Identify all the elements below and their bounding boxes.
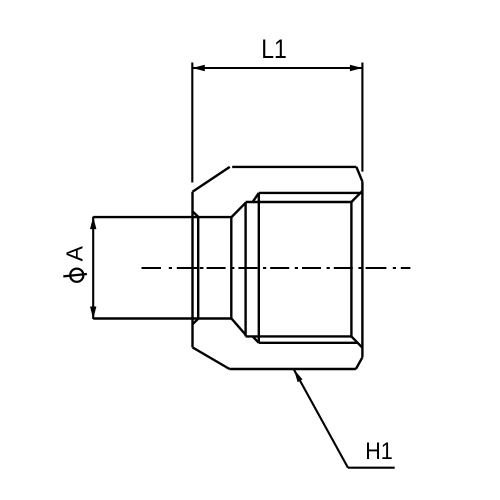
cone taper top	[232, 203, 246, 217]
leader H1 line	[294, 369, 348, 467]
phi symbol circle	[70, 269, 83, 282]
hex body right face	[361, 182, 363, 358]
cylinder top outline	[93, 216, 231, 218]
corner chamfer diagonal top-left	[253, 193, 259, 202]
hex body bottom edge	[230, 368, 356, 370]
cylinder bottom outline	[93, 317, 231, 319]
dimension phiA arrowhead bottom	[90, 307, 96, 320]
dimension L1 extension left	[191, 63, 193, 183]
dimension L1 extension right	[361, 63, 363, 172]
hex body bottom-right chamfer	[356, 357, 363, 369]
svg-text:A: A	[62, 245, 88, 261]
hex body left face	[191, 192, 193, 348]
hex face entry chamfer bottom	[193, 319, 199, 324]
cone taper bottom	[231, 318, 245, 335]
phi symbol bar	[63, 274, 87, 276]
leader H1 arrowhead	[294, 369, 303, 382]
corner chamfer diagonal bottom-left	[253, 336, 259, 342]
centerline	[142, 267, 411, 269]
dimension L1 line	[192, 67, 362, 69]
hex body top-left chamfer	[193, 167, 230, 192]
corner chamfer diagonal top-right	[351, 191, 362, 202]
svg-text:L1: L1	[261, 34, 287, 64]
inner face rect A bottom	[246, 335, 352, 337]
hex face entry chamfer top	[193, 211, 199, 216]
front flat rect B left	[258, 193, 260, 343]
dimension L1 arrowhead left	[192, 65, 205, 71]
dimension L1 arrowhead right	[350, 65, 363, 71]
inner face rect A right	[350, 202, 352, 336]
front flat rect B top	[259, 192, 363, 194]
inner face rect A top	[246, 201, 352, 203]
cone base edge vertical	[230, 217, 232, 318]
hex body bottom-left chamfer	[193, 347, 230, 369]
dimension phiA arrowhead top	[90, 217, 96, 230]
front flat rect B bottom	[259, 342, 358, 344]
hex face entry edge vertical	[197, 217, 199, 319]
hex body top-right chamfer	[356, 167, 362, 182]
hex body top edge	[232, 166, 356, 168]
inner face rect A left	[244, 202, 246, 336]
leader H1 tail	[348, 467, 395, 469]
corner chamfer diagonal bottom-right	[351, 336, 362, 347]
svg-text:H1: H1	[365, 438, 393, 465]
dimension phiA text	[62, 245, 88, 261]
dimension phiA line	[92, 217, 94, 319]
